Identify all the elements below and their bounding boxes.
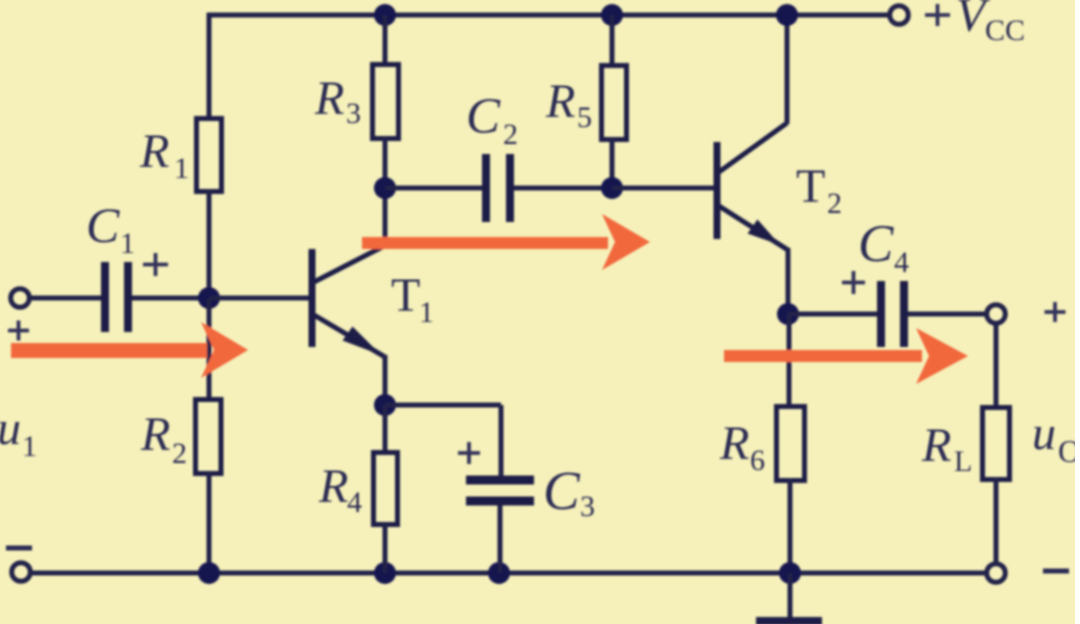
wire: C4 to output terminal (908, 312, 987, 317)
node: T2 base node (601, 177, 623, 199)
wire: C3 bottom lead (498, 505, 503, 573)
node: rail/T2 collector junction (776, 4, 798, 26)
svg-text:R: R (314, 72, 344, 125)
svg-text:R: R (545, 75, 575, 128)
label R4 (318, 460, 362, 519)
label + (output) (1045, 302, 1066, 322)
T2 emitter arrowhead (748, 220, 781, 246)
label T1 (391, 269, 434, 329)
label C3 (543, 460, 595, 523)
resistor R2 (196, 400, 222, 474)
svg-text:R: R (139, 125, 169, 178)
svg-text:3: 3 (580, 490, 595, 523)
wire: RL to bottom terminal (994, 478, 999, 564)
terminal: output - (987, 564, 1006, 583)
resistor R5 (602, 66, 627, 140)
capacitor C3 (466, 480, 534, 501)
svg-text:1: 1 (120, 227, 135, 260)
node: rail/R5 junction (601, 4, 623, 26)
wire: C2 to R5 node (514, 186, 612, 191)
resistor RL (983, 408, 1010, 480)
signal arrow: output (724, 328, 968, 384)
node: rail/R3 junction (374, 4, 396, 26)
wire: top supply rail (207, 13, 889, 18)
wire: R4 to bottom rail (383, 524, 388, 573)
wire: T1 collector up to node (383, 188, 388, 247)
wire: ground lead (788, 573, 793, 618)
transistor T1 (312, 245, 386, 357)
svg-text:CC: CC (985, 14, 1025, 47)
wire: emitter node over to C3 (385, 403, 501, 408)
node: bottom rail / ground (779, 562, 801, 584)
svg-text:2: 2 (503, 118, 518, 151)
resistor R1 (197, 119, 222, 192)
wire: T2 emitter down to output node (786, 248, 791, 314)
label + (C4 polarity) (842, 271, 865, 294)
label C4 (858, 215, 909, 279)
node: bottom rail / R2 (198, 562, 220, 584)
svg-text:T: T (391, 269, 420, 322)
svg-text:5: 5 (577, 101, 592, 134)
label RL (921, 419, 972, 478)
wire: R5 to T2 base node (610, 138, 615, 188)
svg-text:C: C (466, 89, 501, 145)
wire: R1 bottom to base node (207, 190, 212, 298)
svg-text:C: C (858, 215, 894, 273)
label + (input terminal) (8, 321, 29, 341)
wire: base node to R2 (207, 298, 212, 400)
svg-text:C: C (543, 460, 581, 521)
svg-text:R: R (140, 408, 170, 461)
wire: R1 top (rail to R1) (207, 13, 212, 118)
svg-text:1: 1 (419, 296, 434, 329)
capacitor C4 (881, 281, 904, 347)
svg-text:C: C (86, 197, 120, 253)
svg-text:4: 4 (347, 486, 362, 519)
wire: bottom rail (30, 571, 987, 576)
label minus (input bottom) (6, 546, 32, 551)
wire: RL top (994, 322, 999, 407)
label u1 (0, 402, 37, 463)
white strip right edge (1075, 0, 1080, 624)
svg-text:R: R (318, 460, 348, 513)
capacitor C2 (486, 154, 510, 222)
svg-text:3: 3 (346, 97, 361, 130)
wire: T2 base wire (612, 186, 714, 191)
label R5 (545, 75, 592, 134)
node: T1 base node (198, 287, 220, 309)
wire: R3 to collector node (383, 137, 388, 188)
svg-text:u: u (0, 402, 21, 455)
node: T1 emitter node (374, 394, 396, 416)
wire: output node to R6 (787, 314, 792, 406)
label C2 (466, 89, 518, 151)
resistor R4 (374, 453, 398, 525)
wire: rail to R3 (383, 15, 388, 65)
wire: T1 base wire (209, 296, 309, 301)
wire: R2 to bottom rail (207, 472, 212, 573)
label T2 (796, 160, 842, 220)
transistor T2 (717, 123, 788, 250)
svg-text:R: R (719, 417, 749, 470)
resistor R6 (777, 407, 805, 481)
T1 emitter arrowhead (343, 327, 382, 356)
label uO (1032, 407, 1080, 469)
terminal: output + (987, 305, 1006, 324)
label R6 (719, 417, 765, 477)
resistor R3 (373, 65, 399, 139)
label R3 (314, 72, 361, 130)
svg-text:1: 1 (174, 152, 189, 185)
wire: input terminal to C1 (29, 296, 101, 301)
wire: C3 top lead (499, 405, 504, 477)
terminal: input ground side (12, 563, 31, 582)
wire: emitter node to R4 (383, 405, 388, 452)
svg-text:2: 2 (827, 187, 842, 220)
label + (C3 polarity) (458, 442, 480, 464)
capacitor C1 (105, 262, 128, 332)
svg-text:6: 6 (750, 444, 765, 477)
svg-text:2: 2 (172, 437, 187, 470)
label R1 (139, 125, 189, 185)
svg-text:T: T (796, 160, 825, 213)
wire: T1 emitter down to node (383, 355, 388, 405)
node: T2 emitter output node (777, 303, 799, 325)
label minus (output) (1043, 569, 1069, 574)
label + (C1 polarity) (143, 253, 168, 276)
signal arrow: input (11, 322, 248, 378)
svg-text:1: 1 (22, 430, 37, 463)
ground (756, 617, 822, 624)
svg-text:R: R (921, 419, 951, 472)
node: bottom rail / R4 (374, 562, 396, 584)
wire: R6 to bottom rail (788, 478, 793, 573)
terminal +Vcc (890, 6, 909, 25)
wire: output node to C4 (788, 312, 877, 317)
svg-text:u: u (1032, 407, 1056, 460)
wire: collector node to C2 (385, 186, 483, 191)
label R2 (140, 408, 187, 470)
label +Vcc (925, 0, 1025, 47)
node: T1 collector node (374, 177, 396, 199)
wire: T2 collector to rail (785, 15, 790, 124)
label C1 (86, 197, 135, 260)
terminal: input (11, 289, 30, 308)
node: bottom rail / C3 (488, 562, 510, 584)
svg-text:4: 4 (894, 246, 909, 279)
svg-text:L: L (954, 445, 972, 478)
wire: C1 to base node (132, 296, 209, 301)
wire: rail to R5 (610, 15, 615, 66)
signal arrow: interstage (362, 214, 650, 270)
